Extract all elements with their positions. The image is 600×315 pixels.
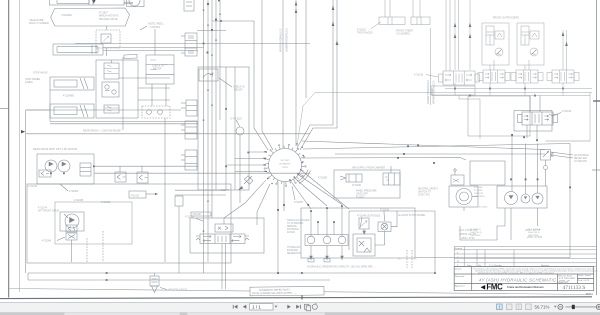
sheet bottom paper edge: [0, 297, 592, 299]
pressure line to relief L1: [302, 141, 545, 150]
block risers: [529, 96, 531, 113]
line dots: [397, 144, 435, 164]
view mode icon 1 active: [497, 304, 503, 310]
svg-text:AT 2000 PSI: AT 2000 PSI: [574, 160, 587, 163]
neutral safety label: [418, 188, 439, 197]
front drum brake valve lower: [66, 233, 77, 240]
svg-text:INTEGRAL: INTEGRAL: [287, 249, 299, 252]
hoist motor (cut at top): [129, 0, 140, 6]
panel gauge label: [356, 190, 377, 199]
swing valve enclosure: [190, 218, 264, 253]
oil cooler 4711106: [378, 222, 391, 232]
line to converter L3: [303, 158, 467, 161]
bus junction dots: [106, 272, 436, 281]
branch to upper works: [212, 21, 268, 150]
svg-text:4711069: 4711069: [101, 201, 111, 204]
pump 3: [532, 193, 543, 204]
spool end springs: [196, 236, 200, 240]
torque converter circle: [456, 189, 472, 205]
label power steer cylinders: [396, 30, 413, 36]
svg-text:GAGE OFF: GAGE OFF: [356, 193, 368, 196]
aux drain drop: [164, 118, 166, 262]
frame tick bottom center: [301, 296, 303, 300]
front drum motor box: [60, 212, 84, 231]
pencil note S/N list right: [524, 228, 542, 239]
drop to swing valve: [224, 180, 266, 218]
svg-text:ROTATING: ROTATING: [280, 163, 291, 166]
svg-text:CONV. PSI: CONV. PSI: [418, 195, 430, 197]
svg-text:4711064: 4711064: [42, 240, 52, 243]
svg-text:UPPER HYDRAULICS: UPPER HYDRAULICS: [433, 80, 436, 104]
svg-text:AFT FRONT DRUM: AFT FRONT DRUM: [38, 210, 59, 213]
svg-text:HYDRAULIC: HYDRAULIC: [287, 246, 301, 249]
steering sub plate: [431, 86, 475, 95]
bank bottom lines: [175, 189, 226, 191]
pump drive lines down: [504, 208, 506, 226]
strainer drains: [310, 246, 312, 260]
suction manifold box: [470, 161, 505, 185]
outrigger valve module 3: [516, 70, 538, 83]
reel drop lines: [151, 84, 153, 106]
effect on serial cell: [558, 274, 576, 284]
steering valve supply risers: [445, 0, 447, 71]
rotating joint body circle: [269, 149, 302, 182]
scrollbar thumb 1: [64, 313, 180, 315]
next page button: [287, 305, 291, 309]
scrollbar thumb 2: [187, 313, 325, 315]
svg-text:HOLDING VALVE: HOLDING VALVE: [99, 18, 118, 21]
svg-text:2801 33-78: 2801 33-78: [524, 228, 541, 232]
svg-text:4711133 S: 4711133 S: [563, 285, 586, 291]
svg-text:20 GPM: 20 GPM: [474, 190, 482, 192]
counterbalance valve stack enclosure: [96, 60, 138, 118]
drop to gauge leg: [257, 184, 270, 225]
main pump: [505, 192, 518, 205]
svg-text:Model (4Y): Model (4Y): [558, 282, 568, 284]
rear drum motor circle 1: [45, 160, 57, 172]
bypass relief valve: [359, 218, 369, 229]
svg-text:4711008: 4711008: [474, 187, 483, 189]
svg-text:FROM (CRANE) S/N 28609 AFTER..: FROM (CRANE) S/N 28609 AFTER... —: [252, 292, 298, 295]
reservoir vent filter 4711039: [150, 276, 159, 286]
divider line upper: [282, 0, 284, 148]
svg-text:4Y'S THRU 25M2: 4Y'S THRU 25M2: [559, 277, 576, 280]
svg-text:AIR SUPPLY FROM CARRIER: AIR SUPPLY FROM CARRIER: [352, 167, 385, 170]
sheet left paper edge: [8, 0, 10, 298]
steer return riser: [332, 0, 334, 125]
outrigger valve module 4: [552, 70, 574, 83]
air treadle valve: [346, 174, 362, 182]
svg-text:2400 RPM: 2400 RPM: [474, 196, 485, 198]
riser arrowheads: [332, 6, 335, 11]
sheet left inner frame: [19, 0, 21, 292]
outrigger valve module 2: [483, 70, 505, 83]
shuttle valve: [39, 170, 51, 177]
reel valve dashed box: [96, 30, 120, 48]
svg-text:2000 PSI: 2000 PSI: [474, 193, 483, 195]
pump enclosure: [497, 186, 547, 208]
pilot check 1: [495, 48, 503, 56]
svg-text:Formed: Formed: [455, 247, 463, 250]
winch control valve (cut at top): [184, 0, 194, 11]
svg-text:TRANS OIL COOLER: TRANS OIL COOLER: [287, 219, 310, 222]
return bus lines: [50, 121, 198, 123]
view mode icon 4: [526, 304, 532, 310]
left margin bus: [25, 110, 27, 273]
main relief valve: [199, 69, 218, 81]
svg-text:56.71%: 56.71%: [535, 305, 550, 310]
test gauge port: [544, 166, 548, 170]
drain lines dashed: [86, 238, 88, 262]
left header line: [26, 109, 181, 111]
rotate/page tool icon 1: [305, 304, 311, 311]
outrigger cylinder 1: [486, 26, 494, 45]
2-speed shift valve 1: [115, 172, 126, 182]
svg-text:Scale: Scale: [578, 275, 584, 277]
svg-text:2801 37M8: 2801 37M8: [526, 235, 542, 239]
suction drop lines: [310, 211, 312, 236]
svg-text:M: M: [457, 261, 459, 263]
view mode icon 3: [516, 304, 522, 310]
long feed line: [75, 43, 310, 45]
svg-text:FILTER: FILTER: [287, 232, 295, 234]
down leg to trans line: [283, 182, 285, 212]
svg-text:Effect on Serial: Effect on Serial: [558, 274, 572, 277]
check-in relief label: [152, 65, 164, 71]
svg-text:detrimental to the interest of: detrimental to the interest of FMC Corpo…: [478, 272, 555, 275]
return filter assembly: [353, 234, 375, 256]
svg-text:4711096A: 4711096A: [61, 14, 72, 17]
valve ports down: [221, 253, 223, 289]
sheet right frame: [596, 0, 598, 295]
ports left to bank: [249, 151, 267, 153]
svg-text:Released: Released: [455, 276, 465, 278]
steer cylinder right: [411, 17, 430, 25]
bank junction dots: [225, 108, 249, 167]
svg-text:JOINT: JOINT: [282, 167, 289, 169]
port dots on circle rim: [264, 143, 304, 184]
air control enclosure: [334, 170, 400, 198]
svg-text:LINES): LINES): [25, 81, 33, 84]
svg-text:4711016: 4711016: [562, 110, 572, 113]
divider label lower: [427, 80, 436, 104]
rotate tool icon 2: [312, 303, 317, 309]
valve drains to return bus: [454, 83, 456, 96]
pto line to converter: [460, 226, 497, 240]
svg-text:1 / 1: 1 / 1: [252, 305, 261, 310]
diagonals to reservoir: [290, 180, 311, 209]
svg-text:RACK CYLINDER: RACK CYLINDER: [29, 22, 49, 25]
strainer circle 3: [338, 236, 346, 244]
cb valve upper: [104, 63, 119, 79]
front drum motor circle: [65, 214, 79, 228]
stop valve label: [25, 72, 74, 98]
steer cylinder left: [379, 17, 405, 25]
suction junction dots: [310, 205, 343, 223]
svg-text:SWITCH 'AT': SWITCH 'AT': [418, 191, 432, 194]
zoom dropdown caret: [554, 306, 557, 308]
frame tick left: [21, 130, 25, 133]
view mode icon 2: [506, 304, 512, 310]
svg-text:RELIEF: RELIEF: [234, 89, 243, 92]
pressure line to pumps L2: [303, 144, 570, 150]
rotating joint port ticks: [264, 144, 306, 186]
rod lines to valve bank: [103, 47, 204, 49]
drain stub box: [175, 196, 183, 206]
outrigger circuit box 2: [517, 23, 544, 65]
svg-text:4711046 (SCR 50/50): 4711046 (SCR 50/50): [357, 215, 380, 218]
rotating joint label: [280, 160, 291, 169]
upper valve block 4711016: [522, 112, 553, 125]
pencil note S/N list left: [458, 228, 478, 240]
svg-text:UPPER HYDRAULICS: UPPER HYDRAULICS: [280, 28, 283, 52]
junction dots: [203, 0, 222, 54]
svg-text:4711043: 4711043: [28, 185, 38, 188]
telescope cylinder 3: [50, 104, 94, 118]
hoist section valve B: [185, 121, 197, 139]
collector ring arc: [299, 171, 311, 184]
brake valve: [80, 163, 91, 176]
divider line lower: [430, 28, 432, 105]
svg-text:Approved: Approved: [455, 285, 465, 288]
feed lines to 2sp valves: [94, 165, 198, 167]
return bus lower 2: [28, 279, 330, 281]
reel holding valve: [101, 34, 111, 43]
scrollbar strip: [0, 312, 600, 315]
zoom slider track: [566, 306, 597, 308]
hoist section valve A: [186, 100, 197, 116]
rear drum motor circle 2: [58, 160, 70, 172]
callout banner 4711096 winch anti-rvs holding valve: [51, 8, 130, 26]
telescope cylinder (cut at top): [49, 0, 124, 5]
outrigger cylinder 2: [521, 26, 529, 45]
svg-text:LOWER HYDRAULICS: LOWER HYDRAULICS: [427, 80, 430, 104]
last page button: [296, 305, 300, 309]
steering valve end caps: [439, 74, 443, 82]
swing directional spool: [200, 234, 245, 244]
cooler connection: [391, 211, 397, 227]
main return riser: [569, 144, 571, 258]
pressure gauge 4711029: [236, 127, 244, 135]
zoom out button: [558, 304, 563, 309]
zoom slider thumb: [572, 305, 575, 309]
rear drum motor box: [37, 154, 94, 184]
hoist section valve C: [185, 150, 197, 170]
page dropdown caret: [275, 306, 278, 308]
2-speed shift valve 2: [137, 172, 148, 183]
svg-text:NEUTRAL SAFETY: NEUTRAL SAFETY: [418, 188, 439, 191]
hose reel assembly box: [146, 55, 174, 84]
swing relief cross valve: [215, 224, 233, 232]
frame bottom line: [9, 289, 592, 295]
zoom in button: [596, 304, 600, 309]
pump risers: [525, 144, 527, 195]
transmission filter note: [287, 219, 310, 255]
svg-text:(none): (none): [585, 275, 591, 277]
svg-text:18 PORT: 18 PORT: [280, 160, 290, 162]
strainer circle 2: [323, 236, 331, 244]
reservoir tank outline: [301, 208, 415, 258]
svg-text:Crane and Excavator Division: Crane and Excavator Division: [507, 285, 544, 289]
divider label upper: [280, 28, 289, 52]
winch directional valve: [185, 33, 197, 56]
svg-text:RELIEF SET: RELIEF SET: [574, 158, 588, 160]
riser arrowheads: [454, 23, 568, 97]
aft front drum label: [38, 207, 59, 213]
piston rod: [124, 1, 133, 3]
aux check valve dashed box: [142, 106, 170, 118]
cb valve lower: [104, 105, 119, 113]
T1 T2 port ticks: [406, 250, 408, 268]
svg-text:4711063: 4711063: [69, 190, 79, 193]
svg-text:REAR DRUM WITH OPT 2 SP MOTOR: REAR DRUM WITH OPT 2 SP MOTOR: [33, 148, 77, 151]
valve bank enclosure: [198, 67, 249, 190]
svg-text:STOP VALVE: STOP VALVE: [33, 72, 48, 75]
pump 2: [521, 194, 530, 203]
main supply bus risers: [203, 0, 205, 273]
quick disconnect fitting: [244, 176, 252, 184]
revision table labels: [455, 247, 550, 267]
main relief valve 4711045: [541, 150, 551, 161]
check in relief label: [233, 86, 245, 92]
diagonal dots: [277, 204, 309, 274]
carrier deck line: [335, 153, 545, 155]
svg-text:4711085: 4711085: [318, 177, 328, 180]
return header line: [26, 133, 310, 135]
svg-text:REAR WINCH — 2250 PSI RELIEF: REAR WINCH — 2250 PSI RELIEF: [83, 130, 122, 133]
svg-text:MOUNTED: MOUNTED: [287, 229, 299, 231]
front drum assembly enclosure: [55, 202, 132, 244]
neutral safety switch: [451, 175, 464, 185]
return bus lower 1: [28, 272, 435, 274]
svg-text:◄FMC: ◄FMC: [479, 283, 503, 292]
return bus upper: [445, 88, 592, 90]
pressure filter enclosure: [468, 96, 530, 136]
svg-text:4711551: 4711551: [150, 25, 160, 29]
flag 4711095: [124, 55, 137, 59]
pump output labels: [470, 229, 541, 237]
page number input box: [250, 304, 274, 310]
motor drain dots: [50, 165, 95, 174]
remote valve flag 4711067: [129, 191, 146, 198]
svg-text:4711087: 4711087: [294, 201, 304, 204]
label 4711118 two places: [357, 29, 373, 35]
svg-text:4711068: 4711068: [74, 199, 84, 202]
svg-text:2801 37M: 2801 37M: [460, 236, 475, 240]
upper feed left: [261, 0, 263, 131]
svg-text:LOWER HYDRAULICS: LOWER HYDRAULICS: [286, 28, 289, 52]
note reel label: [148, 22, 164, 29]
pump labels left: [474, 187, 488, 209]
first page button: [233, 305, 237, 309]
pressure regulator: [383, 173, 400, 185]
riser bus: [122, 57, 124, 130]
relief label: [574, 154, 589, 163]
check valve pair: [102, 82, 119, 97]
svg-text:2000 PSI @: 2000 PSI @: [528, 232, 541, 234]
svg-text:4711040: 4711040: [479, 207, 488, 209]
prev page button: [243, 305, 247, 309]
strainer circle 1: [307, 236, 315, 244]
svg-text:ALLISON 53 PSI PROBE: ALLISON 53 PSI PROBE: [398, 214, 425, 217]
revision table: [454, 247, 596, 291]
frame tick top: [92, 0, 96, 4]
outrigger supply risers: [454, 0, 456, 70]
legal notice paragraph: [473, 267, 598, 274]
frame tick right: [592, 169, 600, 171]
lower works enclosure: [27, 184, 231, 263]
svg-text:4711067: 4711067: [131, 195, 140, 197]
svg-text:4711015: 4711015: [414, 74, 424, 77]
toolbar background: [0, 303, 600, 315]
svg-text:FRONT OUTRIGGERS: FRONT OUTRIGGERS: [493, 17, 519, 20]
svg-text:4711107: 4711107: [356, 197, 365, 199]
svg-text:REMOTE: REMOTE: [287, 226, 297, 228]
scale and date cells: [578, 275, 591, 282]
return bus lower to swivel: [297, 93, 592, 147]
label flag 4711067: [191, 212, 211, 216]
transmission line horizontal: [349, 210, 435, 212]
svg-text:RELIEF: RELIEF: [153, 68, 162, 71]
torque converter box: [449, 186, 478, 207]
svg-text:4711077: 4711077: [220, 189, 230, 192]
title block outline: [454, 267, 594, 291]
svg-text:PANEL PRESSURE: PANEL PRESSURE: [356, 190, 377, 193]
svg-text:TWO PLACES: TWO PLACES: [357, 32, 373, 35]
steering valve 4711015: [443, 71, 475, 85]
relief top line: [546, 140, 591, 142]
svg-text:Drawn: Drawn: [455, 268, 462, 271]
schematic effectivity note box: [250, 286, 324, 295]
svg-text:CYLINDERS: CYLINDERS: [396, 33, 410, 36]
front drum brake valve upper: [66, 225, 77, 232]
telescope rack cylinder label: [29, 19, 49, 25]
svg-text:4711048: 4711048: [352, 185, 361, 187]
svg-text:RESERVOIR: RESERVOIR: [287, 253, 301, 255]
pilot check 2: [530, 48, 538, 56]
suction strainer manifold box: [305, 235, 348, 246]
svg-text:4711096B: 4711096B: [63, 95, 74, 98]
svg-text:ADJUSTABLE: ADJUSTABLE: [574, 154, 589, 157]
drain plug boxes: [308, 259, 314, 262]
outrigger circuit box 1: [482, 23, 509, 65]
svg-text:5-2-78: 5-2-78: [584, 280, 591, 282]
telescope cylinder 2: [50, 77, 94, 90]
main down leg: [277, 182, 279, 274]
boom hoist cylinder: [53, 44, 103, 55]
svg-text:4711039 (VENT): 4711039 (VENT): [168, 288, 187, 292]
svg-text:SHT 1: SHT 1: [586, 293, 593, 296]
svg-text:HYDRAULIC RESERVOIR CAPACITY: HYDRAULIC RESERVOIR CAPACITY 150 GAL W/F…: [307, 266, 376, 269]
